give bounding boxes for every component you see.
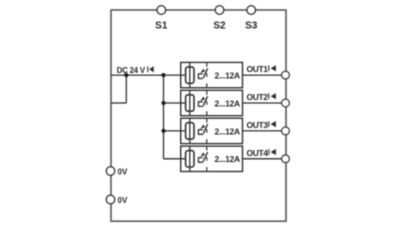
switch S4 contact hook (198, 158, 203, 163)
wire output ch2 (243, 102, 282, 104)
terminal OUT3 (282, 127, 290, 135)
fuse F1 lead (189, 62, 191, 87)
switch S1 linkage dashed line (206, 63, 208, 88)
fuse F4 body (186, 151, 194, 167)
svg-text:2...12A: 2...12A (215, 154, 240, 164)
svg-text:OUT2: OUT2 (247, 92, 269, 102)
svg-text:OUT4: OUT4 (247, 148, 269, 158)
module outline (111, 10, 286, 221)
arrow DC 24 V (147, 66, 153, 72)
wire output ch4 (243, 158, 282, 160)
switch S4 linkage dashed line (206, 147, 208, 172)
wire input loop bottom (111, 102, 126, 104)
breaker channel 2 block (181, 90, 243, 115)
terminal S2 (215, 6, 223, 14)
breaker channel 4 block (181, 146, 243, 171)
terminal OUT1 (282, 71, 290, 79)
wire branch ch3 (164, 130, 186, 132)
svg-text:2...12A: 2...12A (215, 71, 240, 81)
node junction DC/bus (161, 73, 165, 77)
wire DC 24V feed (111, 74, 186, 76)
switch S2 actuate arrow (200, 97, 205, 101)
arrow OUT3 (268, 121, 276, 127)
wire output ch3 (243, 130, 282, 132)
svg-text:0V: 0V (118, 167, 128, 176)
terminal OUT2 (282, 99, 290, 107)
fuse F4 lead (189, 146, 191, 171)
switch S3 blade (203, 124, 207, 134)
arrow OUT4 (268, 149, 276, 155)
switch S2 linkage dashed line (206, 91, 208, 116)
breaker channel 1 block (181, 62, 243, 87)
wire branch ch2 (164, 102, 186, 104)
svg-text:S2: S2 (213, 21, 226, 32)
svg-text:S3: S3 (245, 21, 258, 32)
svg-text:DC 24 V: DC 24 V (117, 66, 146, 75)
switch S2 contact hook (198, 102, 203, 107)
switch S4 blade (203, 152, 207, 162)
svg-text:2...12A: 2...12A (215, 98, 240, 108)
node junction bus/ch2 (161, 101, 165, 105)
switch S3 contact hook (198, 130, 203, 135)
svg-text:2...12A: 2...12A (215, 126, 240, 136)
arrow OUT1 (268, 65, 276, 71)
breaker channel 3 block (181, 118, 243, 143)
switch S1 contact hook (198, 74, 203, 79)
terminal OUT4 (282, 155, 290, 163)
terminal S3 (247, 6, 255, 14)
wire input loop vertical (125, 75, 127, 103)
fuse F2 body (186, 95, 194, 111)
terminal 0V lower (106, 195, 114, 203)
terminal 0V upper (106, 167, 114, 175)
switch S3 actuate arrow (200, 124, 205, 128)
svg-text:0V: 0V (118, 196, 128, 205)
switch S2 blade (203, 96, 207, 106)
svg-text:OUT3: OUT3 (247, 120, 269, 130)
terminal S1 (157, 6, 165, 14)
switch S3 linkage dashed line (206, 119, 208, 144)
wire supply bus (163, 75, 165, 159)
arrow OUT2 (268, 93, 276, 99)
node junction bus/ch3 (161, 129, 165, 133)
fuse F2 lead (189, 90, 191, 115)
svg-text:OUT1: OUT1 (247, 64, 269, 74)
svg-text:S1: S1 (155, 21, 168, 32)
wire branch ch4 (164, 158, 186, 160)
switch S4 actuate arrow (200, 152, 205, 156)
fuse F3 body (186, 123, 194, 139)
fuse F1 body (186, 67, 194, 83)
node junction DC/loop (124, 73, 128, 77)
switch S1 blade (203, 68, 207, 78)
switch S1 actuate arrow (200, 69, 205, 73)
fuse F3 lead (189, 118, 191, 143)
wire output ch1 (243, 74, 282, 76)
